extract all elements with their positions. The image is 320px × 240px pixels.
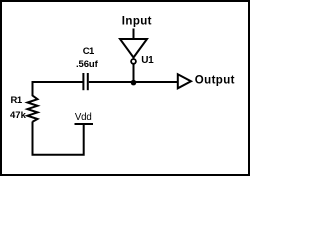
svg-text:R1: R1 [11, 95, 23, 106]
svg-text:C1: C1 [83, 46, 95, 57]
wire input to inverter [133, 29, 135, 41]
svg-text:.56uf: .56uf [76, 59, 99, 70]
svg-text:Vdd: Vdd [75, 112, 92, 123]
svg-text:U1: U1 [141, 55, 154, 66]
junction dot [131, 80, 137, 86]
svg-text:Input: Input [122, 15, 152, 27]
svg-text:Output: Output [195, 75, 235, 87]
output buffer triangle [178, 74, 191, 88]
wire inverter output to junction [133, 64, 135, 83]
inverter U1 output bubble [131, 59, 136, 64]
capacitor C1 plates [82, 73, 84, 90]
power Vdd bar [75, 123, 94, 125]
svg-text:47k: 47k [10, 110, 27, 121]
resistor R1 zigzag [28, 95, 38, 122]
inverter U1 triangle [120, 39, 147, 58]
wire resistor bottom to Vdd riser [33, 122, 84, 155]
wire capacitor to output buffer [89, 81, 178, 83]
wire left corner to capacitor C1 left plate [33, 82, 84, 95]
